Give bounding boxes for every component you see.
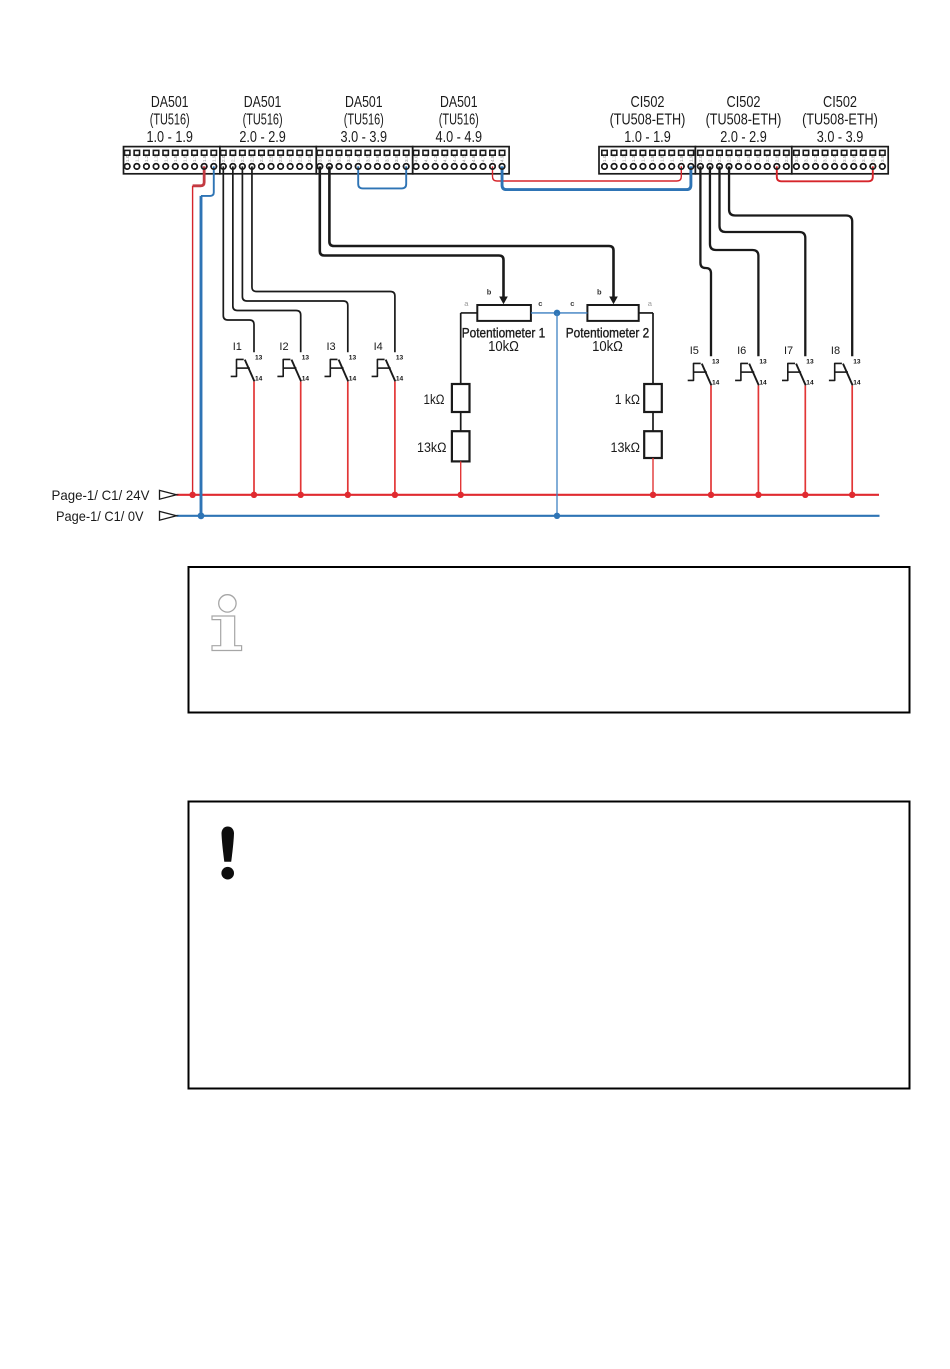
svg-text:2.6: 2.6	[755, 155, 760, 162]
svg-text:4.5: 4.5	[462, 155, 467, 162]
svg-text:1.1: 1.1	[612, 155, 617, 162]
svg-text:1.3: 1.3	[631, 155, 636, 162]
svg-text:13kΩ: 13kΩ	[611, 440, 641, 456]
svg-text:(TU516): (TU516)	[243, 111, 283, 128]
svg-text:Page-1/ C1/ 0V: Page-1/ C1/ 0V	[56, 508, 144, 524]
svg-text:3.0: 3.0	[794, 155, 799, 162]
svg-text:2.7: 2.7	[765, 155, 770, 162]
svg-text:I5: I5	[690, 345, 699, 357]
svg-text:3.3: 3.3	[823, 155, 828, 162]
svg-text:14: 14	[302, 375, 310, 382]
svg-text:14: 14	[853, 379, 861, 386]
svg-text:13: 13	[712, 358, 720, 365]
svg-text:c: c	[570, 299, 574, 308]
svg-text:1.9: 1.9	[689, 155, 694, 162]
svg-text:2.3: 2.3	[727, 155, 732, 162]
svg-text:b: b	[487, 288, 492, 297]
svg-text:1.5: 1.5	[173, 155, 178, 162]
svg-text:13: 13	[759, 358, 767, 365]
svg-text:1.3: 1.3	[154, 155, 159, 162]
svg-text:4.7: 4.7	[481, 155, 486, 162]
svg-text:I6: I6	[737, 345, 746, 357]
svg-text:3.7: 3.7	[861, 155, 866, 162]
svg-text:1.6: 1.6	[183, 155, 188, 162]
svg-text:3.6: 3.6	[851, 155, 856, 162]
svg-text:3.4: 3.4	[832, 155, 837, 162]
svg-text:1.4: 1.4	[641, 155, 646, 162]
svg-text:2.3: 2.3	[250, 155, 255, 162]
svg-text:CI502: CI502	[631, 94, 665, 111]
svg-text:2.0 - 2.9: 2.0 - 2.9	[239, 129, 286, 146]
svg-text:2.8: 2.8	[774, 155, 779, 162]
svg-text:13: 13	[302, 354, 310, 361]
svg-text:3.5: 3.5	[842, 155, 847, 162]
svg-text:(TU516): (TU516)	[150, 111, 190, 128]
svg-text:2.4: 2.4	[259, 155, 264, 162]
svg-text:3.8: 3.8	[394, 155, 399, 162]
svg-text:1.0: 1.0	[125, 155, 130, 162]
svg-text:2.6: 2.6	[278, 155, 283, 162]
svg-text:3.4: 3.4	[356, 155, 361, 162]
svg-text:14: 14	[759, 379, 767, 386]
svg-text:4.0: 4.0	[414, 155, 419, 162]
svg-text:2.0: 2.0	[221, 155, 226, 162]
svg-text:10kΩ: 10kΩ	[592, 339, 623, 355]
svg-text:I4: I4	[374, 341, 383, 353]
svg-text:1.7: 1.7	[192, 155, 197, 162]
svg-text:1.2: 1.2	[621, 155, 626, 162]
svg-text:(TU508-ETH): (TU508-ETH)	[706, 111, 782, 128]
svg-text:b: b	[597, 288, 602, 297]
svg-text:13: 13	[349, 354, 357, 361]
svg-text:3.3: 3.3	[346, 155, 351, 162]
svg-text:Page-1/ C1/ 24V: Page-1/ C1/ 24V	[52, 487, 151, 503]
svg-text:1.0: 1.0	[602, 155, 607, 162]
svg-text:2.2: 2.2	[717, 155, 722, 162]
svg-text:3.2: 3.2	[337, 155, 342, 162]
svg-text:10kΩ: 10kΩ	[488, 339, 519, 355]
svg-text:1.4: 1.4	[163, 155, 168, 162]
svg-text:1 kΩ: 1 kΩ	[615, 392, 640, 408]
svg-text:2.7: 2.7	[288, 155, 293, 162]
svg-text:CI502: CI502	[727, 94, 761, 111]
svg-text:4.9: 4.9	[500, 155, 505, 162]
svg-text:3.0 - 3.9: 3.0 - 3.9	[341, 129, 388, 146]
svg-text:I7: I7	[784, 345, 793, 357]
svg-text:I8: I8	[831, 345, 840, 357]
svg-text:1.0 - 1.9: 1.0 - 1.9	[624, 129, 671, 146]
svg-text:1.8: 1.8	[679, 155, 684, 162]
svg-text:2.5: 2.5	[269, 155, 274, 162]
svg-text:4.2: 4.2	[433, 155, 438, 162]
svg-text:DA501: DA501	[244, 94, 282, 111]
svg-text:3.9: 3.9	[880, 155, 885, 162]
svg-text:1.0 - 1.9: 1.0 - 1.9	[146, 129, 193, 146]
svg-text:3.7: 3.7	[385, 155, 390, 162]
svg-text:1kΩ: 1kΩ	[424, 392, 445, 408]
svg-text:3.1: 3.1	[804, 155, 809, 162]
svg-text:I1: I1	[233, 341, 242, 353]
svg-text:14: 14	[396, 375, 404, 382]
svg-text:3.2: 3.2	[813, 155, 818, 162]
svg-text:1.1: 1.1	[134, 155, 139, 162]
svg-text:4.3: 4.3	[442, 155, 447, 162]
svg-text:2.1: 2.1	[231, 155, 236, 162]
svg-text:3.9: 3.9	[404, 155, 409, 162]
svg-text:3.1: 3.1	[327, 155, 332, 162]
svg-text:1.5: 1.5	[650, 155, 655, 162]
svg-text:3.0: 3.0	[317, 155, 322, 162]
svg-text:1.8: 1.8	[202, 155, 207, 162]
svg-text:4.4: 4.4	[452, 155, 457, 162]
svg-text:2.1: 2.1	[708, 155, 713, 162]
svg-text:13: 13	[255, 354, 263, 361]
svg-text:13: 13	[853, 358, 861, 365]
svg-text:(TU508-ETH): (TU508-ETH)	[610, 111, 686, 128]
svg-text:14: 14	[806, 379, 814, 386]
svg-text:2.0 - 2.9: 2.0 - 2.9	[720, 129, 767, 146]
svg-text:4.6: 4.6	[471, 155, 476, 162]
svg-text:CI502: CI502	[823, 94, 857, 111]
svg-text:1.9: 1.9	[211, 155, 216, 162]
svg-text:2.5: 2.5	[746, 155, 751, 162]
svg-text:14: 14	[712, 379, 720, 386]
svg-text:c: c	[538, 299, 542, 308]
svg-text:14: 14	[349, 375, 357, 382]
svg-text:2.9: 2.9	[784, 155, 789, 162]
svg-text:(TU508-ETH): (TU508-ETH)	[802, 111, 878, 128]
svg-text:3.5: 3.5	[365, 155, 370, 162]
svg-text:1.2: 1.2	[144, 155, 149, 162]
svg-text:I2: I2	[279, 341, 288, 353]
svg-text:1.6: 1.6	[660, 155, 665, 162]
svg-text:13: 13	[806, 358, 814, 365]
svg-text:3.6: 3.6	[375, 155, 380, 162]
svg-text:13kΩ: 13kΩ	[417, 440, 447, 456]
svg-text:I3: I3	[327, 341, 336, 353]
svg-text:2.8: 2.8	[297, 155, 302, 162]
svg-text:4.8: 4.8	[490, 155, 495, 162]
svg-text:2.9: 2.9	[307, 155, 312, 162]
svg-text:(TU516): (TU516)	[344, 111, 384, 128]
svg-text:4.1: 4.1	[423, 155, 428, 162]
svg-text:2.0: 2.0	[698, 155, 703, 162]
svg-text:13: 13	[396, 354, 404, 361]
svg-text:3.0 - 3.9: 3.0 - 3.9	[817, 129, 864, 146]
svg-text:DA501: DA501	[440, 94, 478, 111]
svg-text:DA501: DA501	[345, 94, 383, 111]
svg-text:(TU516): (TU516)	[439, 111, 479, 128]
svg-text:14: 14	[255, 375, 263, 382]
svg-text:1.7: 1.7	[669, 155, 674, 162]
svg-text:2.4: 2.4	[736, 155, 741, 162]
svg-text:DA501: DA501	[151, 94, 189, 111]
svg-text:3.8: 3.8	[870, 155, 875, 162]
svg-text:4.0 - 4.9: 4.0 - 4.9	[436, 129, 483, 146]
svg-text:2.2: 2.2	[240, 155, 245, 162]
